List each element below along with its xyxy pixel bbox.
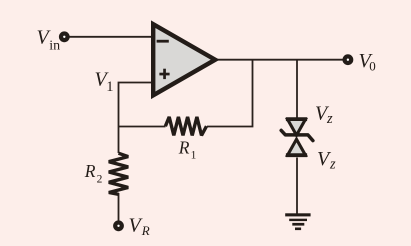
svg-text:1: 1 <box>191 150 197 162</box>
svg-text:R: R <box>178 138 190 158</box>
svg-text:in: in <box>49 38 60 53</box>
svg-text:R: R <box>84 161 96 181</box>
svg-text:z: z <box>329 156 336 172</box>
svg-text:0: 0 <box>369 59 376 74</box>
svg-text:R: R <box>141 223 150 238</box>
svg-text:z: z <box>326 111 333 127</box>
svg-text:2: 2 <box>97 174 103 186</box>
svg-text:1: 1 <box>106 79 113 95</box>
